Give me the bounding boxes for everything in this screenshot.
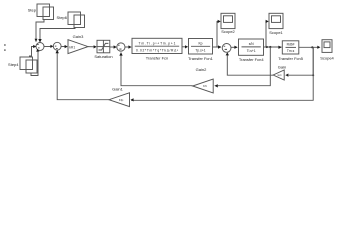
wire sum1 to sum2 <box>44 46 52 48</box>
scope Scope1 <box>269 13 283 28</box>
sum junction sum3 <box>117 43 125 51</box>
wire sum4 to transfer fcn4 <box>231 46 237 48</box>
svg-text:Transfer Fcn1: Transfer Fcn1 <box>188 56 214 61</box>
wire transfer fcn to transfer fcn1 <box>182 46 186 48</box>
arrow into sum4 left <box>218 45 221 48</box>
svg-text:Gain3: Gain3 <box>73 34 84 39</box>
svg-text:0.02*Tm*Tq*TkΔ/RΔ²: 0.02*Tm*Tq*TkΔ/RΔ² <box>136 48 179 52</box>
svg-text:Step4: Step4 <box>8 62 19 67</box>
wire gain1 to sum2 bottom <box>57 52 109 100</box>
svg-text:Step: Step <box>28 8 37 13</box>
wire gain2 to sum3 bottom <box>121 53 193 86</box>
svg-text:Saturation: Saturation <box>94 54 112 59</box>
gain kct triangle <box>273 70 284 80</box>
arrow into sum2 bottom <box>56 50 59 54</box>
wire Step6 to sum1 top <box>40 28 75 41</box>
svg-text:Tm.Ti.p²+Tm.p+1: Tm.Ti.p²+Tm.p+1 <box>139 42 176 46</box>
svg-text:Transfer Fcn5: Transfer Fcn5 <box>278 56 304 61</box>
svg-text:s/N: s/N <box>249 42 255 46</box>
annotation colon <box>4 44 5 51</box>
arrow into transfer fcn <box>128 45 131 48</box>
arrow into saturation <box>94 45 97 48</box>
wire gain3 to saturation <box>88 46 96 48</box>
arrow into scope1 <box>266 20 269 23</box>
svg-text:Ti.s+1: Ti.s+1 <box>247 49 256 53</box>
feedback wire transfer fcn4 out to gain2 <box>218 47 270 86</box>
arrow into sum3 left <box>114 45 117 48</box>
sum junction sum4 <box>222 44 231 53</box>
svg-text:Transfer Fcn: Transfer Fcn <box>146 56 169 61</box>
arrow into sum3 bottom <box>119 52 122 55</box>
arrow into sum1 left <box>33 45 36 48</box>
gain Gain1 triangle <box>109 93 130 107</box>
wire transfer fcn1 to sum4 with branch to scope2 <box>213 46 222 48</box>
feedback wire omega to gain1 <box>131 47 313 100</box>
transfer fcn1 block <box>189 39 213 55</box>
junction omega <box>311 46 313 48</box>
svg-text:RdbF: RdbF <box>287 43 295 47</box>
arrow into scope4 <box>317 46 320 49</box>
wire transfer fcn4 to transfer fcn5 with branches <box>264 46 282 48</box>
feedback wire to gain kct <box>289 47 314 75</box>
svg-text:Gain2: Gain2 <box>196 67 207 72</box>
arrow into scope2 <box>218 20 221 23</box>
arrow into gain kct <box>285 74 288 77</box>
transfer fcn5 block <box>282 41 299 54</box>
sum junction sum2 <box>53 42 61 50</box>
wire up to scope2 <box>217 22 220 48</box>
wire saturation to sum3 <box>110 46 116 48</box>
svg-text:kR1: kR1 <box>69 45 75 49</box>
saturation block <box>97 40 110 53</box>
step source Step <box>37 4 54 20</box>
arrow into transfer fcn4 <box>234 46 237 49</box>
wire transfer fcn5 to scope4 <box>299 46 318 48</box>
arrowheads <box>33 20 320 102</box>
scope Scope2 <box>221 13 235 28</box>
arrow into gain3 <box>65 45 68 48</box>
svg-text:Transfer Fcn4: Transfer Fcn4 <box>239 57 265 62</box>
arrow into sum4 bottom <box>226 52 229 55</box>
arrow into gain1 <box>131 98 134 101</box>
arrow into sum2 left <box>50 45 53 48</box>
junction to scope1 and kct feedback <box>266 46 268 48</box>
svg-text:Gain: Gain <box>278 64 286 69</box>
svg-text:Kfp: Kfp <box>119 98 124 102</box>
arrow into transfer fcn5 <box>278 46 281 49</box>
svg-text:Tp.s+1: Tp.s+1 <box>195 49 205 53</box>
svg-text:kct: kct <box>278 73 282 77</box>
transfer fcn block <box>132 38 182 53</box>
arrow into sum1 top-left <box>35 39 38 43</box>
svg-text:Scope1: Scope1 <box>269 30 283 35</box>
step source Step4 <box>20 57 37 73</box>
gain Gain2 triangle <box>193 79 214 93</box>
step source Step6 <box>68 12 85 28</box>
arrow into sum1 bottom <box>36 49 39 52</box>
arrow into gain2 <box>214 84 218 87</box>
wire sum3 to transfer fcn <box>125 46 131 48</box>
svg-text:Scope2: Scope2 <box>221 29 235 34</box>
svg-text:Kft: Kft <box>203 84 207 88</box>
svg-text:Step6: Step6 <box>57 15 68 20</box>
wire Step to sum1 top-left <box>36 20 44 41</box>
arrow into sum1 top <box>38 39 41 43</box>
wire Step4 to sum1 bottom <box>31 52 38 76</box>
svg-text:Kp: Kp <box>198 42 202 46</box>
transfer fcn4 block <box>239 39 264 55</box>
gain G ain3 triangle <box>68 40 88 54</box>
wire into sum1 left port <box>29 47 34 57</box>
arrow into transfer fcn1 <box>185 45 188 48</box>
wire sum2 to gain3 <box>61 46 67 48</box>
wire kct to sum4 bottom <box>227 55 273 76</box>
svg-text:Gain1: Gain1 <box>112 87 123 92</box>
wire up to scope1 <box>266 22 268 48</box>
scope Scope4 <box>322 40 332 53</box>
svg-text:Tm.s: Tm.s <box>287 49 295 53</box>
svg-text:Scope4: Scope4 <box>320 55 334 60</box>
sum junction sum1 <box>36 43 44 51</box>
